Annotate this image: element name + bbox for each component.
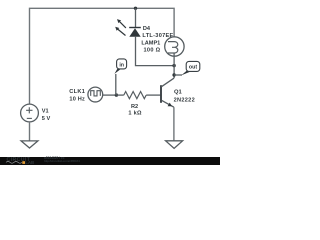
flag in box: [117, 59, 127, 69]
node junction dot on top rail at LED branch: [134, 7, 137, 10]
transistor Q1 emitter arrowhead: [168, 103, 172, 107]
wire resistor to base: [146, 94, 160, 96]
wire in-flag riser: [115, 74, 117, 95]
lamp LAMP1 bulb circle: [165, 37, 184, 56]
wire junction to resistor: [116, 94, 123, 96]
flag out box: [186, 61, 200, 71]
svg-text:http://circuitlab.com/c365b54: http://circuitlab.com/c365b54: [44, 159, 80, 163]
svg-text:1 kΩ: 1 kΩ: [128, 111, 142, 117]
ground (emitter): [166, 141, 183, 149]
LED D4 cathode bar: [129, 27, 141, 29]
LED D4 triangle (points up): [129, 28, 140, 37]
svg-text:LAMP1: LAMP1: [141, 41, 160, 47]
flag in balloon tail: [114, 69, 121, 74]
svg-text:2N2222: 2N2222: [174, 97, 195, 103]
svg-text:Q1: Q1: [174, 89, 183, 95]
svg-text:D4: D4: [143, 26, 151, 32]
wire LED anode lead down from top rail: [135, 8, 137, 27]
svg-text:5 V: 5 V: [42, 116, 51, 122]
resistor R2 zigzag: [124, 92, 146, 99]
clock square wave glyph: [91, 91, 101, 96]
wire lamp bottom lead down to collector corner: [173, 53, 175, 78]
transistor Q1 emitter diagonal: [162, 100, 174, 107]
wire emitter down to ground: [173, 107, 175, 141]
node junction dot at in-flag branch: [115, 93, 118, 96]
svg-text:CLK1: CLK1: [69, 89, 85, 95]
svg-text:R2: R2: [131, 104, 138, 110]
wire top rail from V1 up, across, down to lamp: [30, 8, 175, 104]
footer black bar: [0, 157, 220, 165]
lamp LAMP1 filament coil: [168, 42, 178, 53]
node junction dot LED wire to right rail: [172, 64, 175, 67]
wire LED cathode lead down and right to collector rail: [136, 37, 175, 66]
V1 minus sign: [27, 117, 32, 119]
CircuitLab logo wave: [6, 161, 22, 163]
wire V1 bottom to ground: [29, 122, 31, 141]
CircuitLab logo orange mark: [22, 161, 25, 164]
svg-text:out: out: [189, 64, 197, 70]
svg-text:LAB: LAB: [25, 160, 34, 165]
wire clock output to junction: [103, 94, 117, 96]
svg-text:10 Hz: 10 Hz: [69, 96, 85, 102]
ground (V1): [21, 141, 38, 148]
flag out balloon tail: [181, 71, 191, 76]
svg-text:V1: V1: [42, 109, 49, 115]
transistor Q1 base bar: [160, 85, 162, 103]
voltage source V1 circle: [21, 104, 39, 122]
transistor Q1 collector diagonal: [161, 78, 174, 87]
svg-text:in: in: [119, 62, 124, 68]
node junction dot out-flag stub on right rail: [172, 73, 175, 76]
svg-text:100 Ω: 100 Ω: [144, 48, 161, 54]
LED emission arrow 1: [117, 19, 126, 28]
wire out-flag stub: [174, 74, 182, 76]
LED emission arrow 2: [115, 27, 125, 36]
clock source CLK1 circle: [88, 87, 103, 102]
V1 plus sign: [26, 107, 32, 113]
